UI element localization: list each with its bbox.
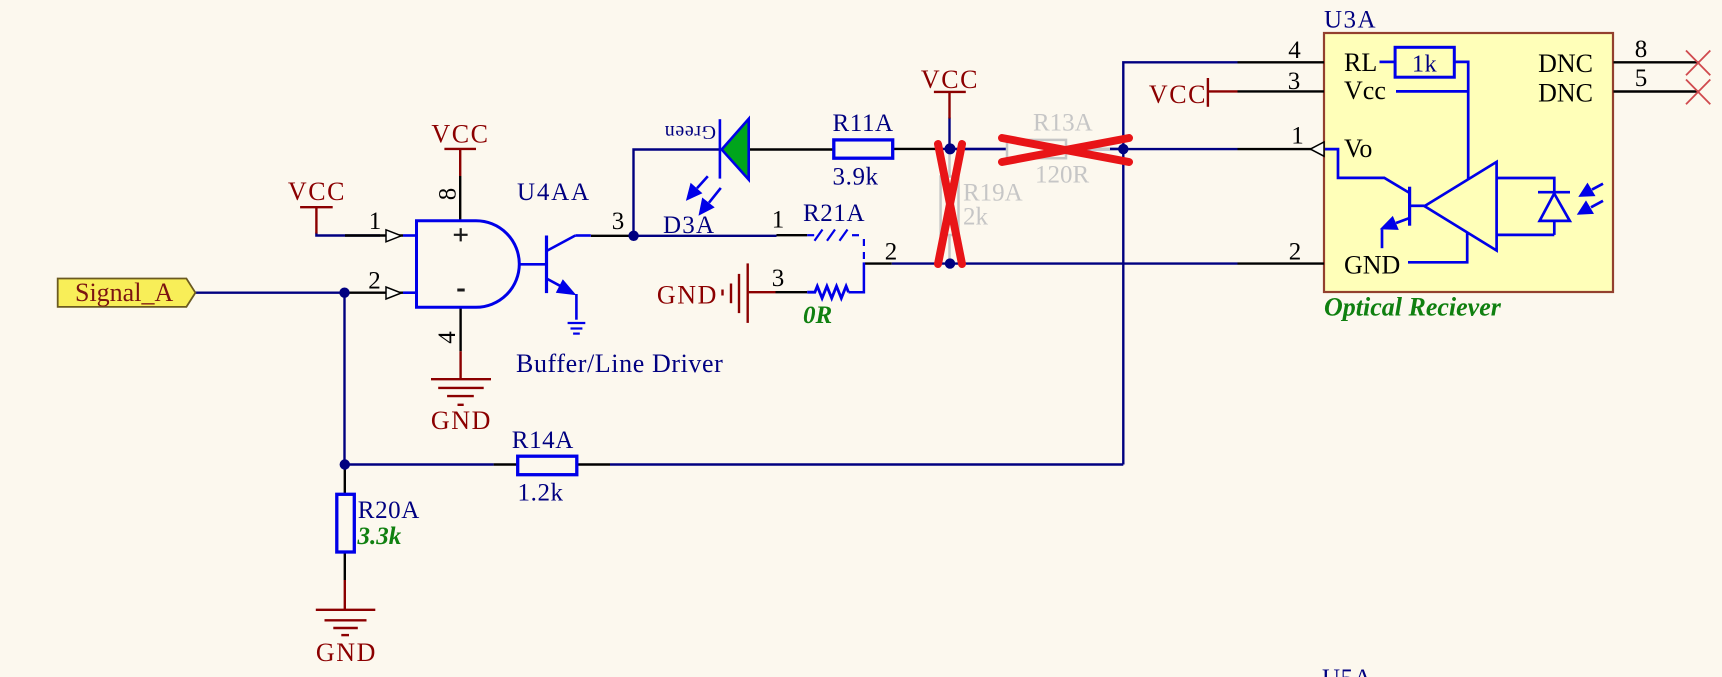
svg-text:2: 2 [885,239,898,266]
svg-text:1: 1 [772,207,785,234]
svg-text:U5A: U5A [1322,665,1372,677]
svg-text:R14A: R14A [512,427,574,454]
svg-text:D3A: D3A [663,212,715,239]
svg-text:Green: Green [664,121,716,143]
svg-text:2: 2 [368,268,381,295]
svg-text:1k: 1k [1412,52,1437,78]
svg-text:Signal_A: Signal_A [75,278,173,307]
svg-text:R20A: R20A [358,497,420,524]
svg-text:3: 3 [772,265,785,292]
svg-text:1: 1 [1291,123,1304,150]
svg-text:3: 3 [612,208,625,235]
svg-text:DNC: DNC [1538,49,1593,78]
svg-text:3.9k: 3.9k [833,164,879,191]
svg-text:3.3k: 3.3k [357,523,402,550]
svg-text:VCC: VCC [921,65,979,94]
svg-text:3: 3 [1288,68,1301,95]
svg-text:VCC: VCC [1149,80,1207,109]
svg-text:Vcc: Vcc [1344,76,1386,105]
svg-text:0R: 0R [803,302,832,329]
svg-text:GND: GND [1344,251,1400,280]
svg-text:2k: 2k [963,204,989,231]
svg-text:DNC: DNC [1538,79,1593,108]
svg-text:1.2k: 1.2k [518,480,564,507]
svg-text:RL: RL [1344,48,1377,77]
svg-text:Vo: Vo [1344,134,1372,163]
svg-text:4: 4 [434,331,461,344]
svg-text:GND: GND [316,638,377,667]
svg-text:R13A: R13A [1033,110,1093,137]
svg-text:1: 1 [369,208,382,235]
svg-text:GND: GND [657,281,718,310]
svg-text:2: 2 [1289,239,1302,266]
svg-text:VCC: VCC [288,177,346,206]
svg-text:4: 4 [1288,37,1301,64]
svg-text:VCC: VCC [431,120,489,149]
svg-text:8: 8 [1635,36,1648,63]
svg-text:R19A: R19A [963,180,1023,207]
svg-text:U3A: U3A [1324,7,1377,34]
svg-text:R11A: R11A [833,110,894,137]
svg-text:R21A: R21A [803,200,865,227]
svg-text:5: 5 [1635,65,1648,92]
svg-text:Buffer/Line Driver: Buffer/Line Driver [516,349,723,378]
svg-text:120R: 120R [1035,162,1090,189]
svg-text:8: 8 [435,188,462,201]
svg-text:GND: GND [431,406,492,435]
svg-text:U4AA: U4AA [517,179,591,206]
svg-text:Optical Reciever: Optical Reciever [1324,293,1502,322]
